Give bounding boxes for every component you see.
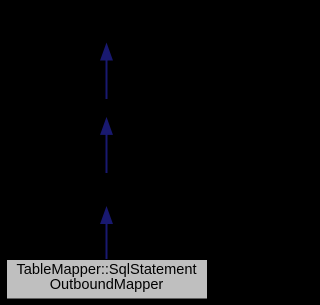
inheritance arrow 1 (top) : head <box>101 44 113 60</box>
inheritance arrow 3 (bottom) : head <box>101 208 113 224</box>
inheritance arrow 2 (middle) : head <box>101 118 113 134</box>
svg-text:OutboundMapper: OutboundMapper <box>50 277 164 293</box>
svg-text:TableMapper::SqlStatement: TableMapper::SqlStatement <box>16 262 196 278</box>
class node box TableMapper::SqlStatementOutboundMapper <box>7 260 208 300</box>
inheritance arrow 1 (top) : shaft <box>106 59 108 99</box>
inheritance arrow 3 (bottom) : shaft <box>106 223 108 260</box>
inheritance arrow 2 (middle) : shaft <box>106 134 108 174</box>
